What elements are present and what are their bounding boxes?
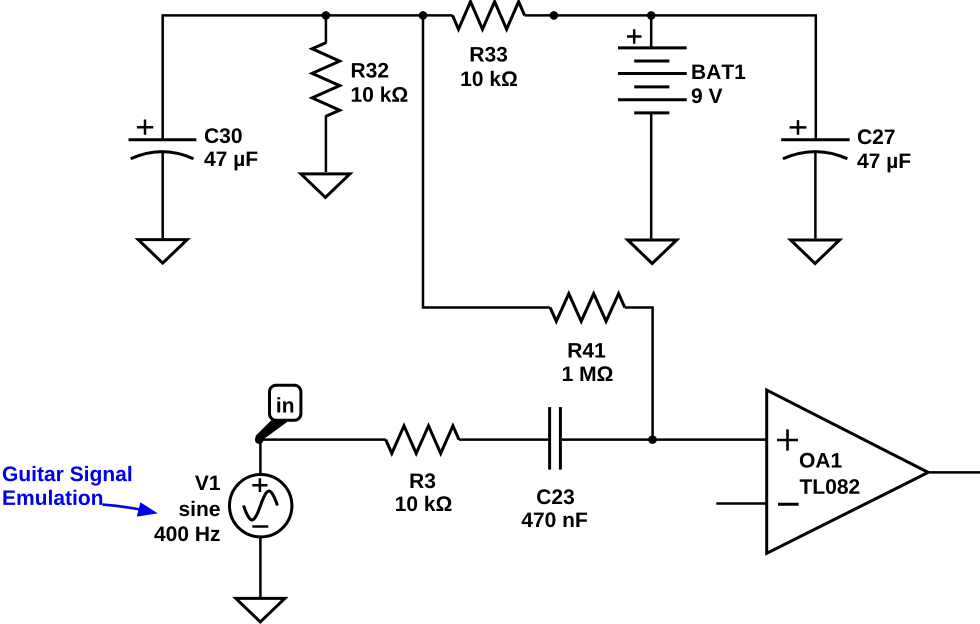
wire C27 bottom <box>814 152 817 238</box>
junction dot R32/top rail <box>322 11 331 20</box>
label C30 value 47 µF <box>204 152 257 171</box>
node in tag box <box>270 385 301 420</box>
wire R41 branch from top rail <box>423 15 550 307</box>
wire V1 top <box>259 440 262 474</box>
annotation text Guitar Signal <box>3 466 131 486</box>
capacitor C27 curved plate <box>783 152 848 159</box>
label R32 <box>352 63 388 78</box>
source V1 sine wave <box>244 491 278 520</box>
op-amp OA1 plus input symbol <box>777 429 798 450</box>
label BAT1 <box>692 65 745 79</box>
source V1 minus sign <box>252 525 268 528</box>
wire R3 to C23 <box>459 438 548 441</box>
label V1 sine <box>179 501 220 516</box>
label C30 <box>205 128 242 143</box>
label BAT1 value 9 V <box>692 88 723 103</box>
battery BAT1 plates <box>618 48 687 113</box>
op-amp OA1 triangle <box>767 390 929 553</box>
label R32 value 10 kΩ <box>352 87 408 102</box>
junction dot node in <box>255 435 264 444</box>
capacitor C30 plus sign <box>137 120 153 135</box>
annotation arrow head <box>137 502 158 516</box>
wire R32 bottom stub <box>325 116 328 173</box>
wire C30 bottom <box>161 152 164 238</box>
label R3 value 10 kΩ <box>396 496 452 511</box>
resistor R33 <box>453 2 525 30</box>
label R41 value 1 MΩ <box>563 366 613 381</box>
label R33 value 10 kΩ <box>462 71 518 86</box>
label OA1 <box>800 453 842 468</box>
ground under R32 <box>301 174 350 198</box>
source V1 plus sign <box>252 478 267 492</box>
node in tag pointer wedge <box>255 421 287 439</box>
capacitor C23 plates <box>550 407 561 470</box>
wire inverting input stub <box>716 502 766 505</box>
node in tag text <box>277 397 293 412</box>
wire C23 to op-amp <box>562 438 767 441</box>
label C27 value 47 µF <box>857 154 910 173</box>
resistor R32 <box>312 43 340 117</box>
wire R41 to summing node <box>625 308 653 440</box>
junction dot right of R33 <box>550 11 559 20</box>
label R33 <box>471 47 507 62</box>
label C27 <box>858 129 895 144</box>
label R3 <box>411 473 436 488</box>
battery BAT1 plus sign <box>627 29 642 44</box>
junction dot battery/top rail <box>647 11 656 20</box>
wire top rail right with C27 riser <box>525 15 816 139</box>
wire R32 top stub <box>325 15 328 43</box>
wire V1 bottom <box>259 538 262 598</box>
capacitor C30 curved plate <box>131 152 194 159</box>
source V1 circle <box>230 475 292 537</box>
wire main signal line V1 to R3 <box>259 438 386 441</box>
wire op-amp output <box>928 471 980 474</box>
label V1 <box>195 476 220 490</box>
junction dot R41 branch/top rail <box>419 11 428 20</box>
label C23 value 470 nF <box>522 512 587 527</box>
ground under C27 <box>791 240 840 264</box>
label OA1 type TL082 <box>800 479 860 494</box>
label C23 <box>537 489 574 504</box>
resistor R41 <box>550 294 625 322</box>
wire top rail left with C30 riser <box>163 15 453 139</box>
junction dot summing node <box>648 435 657 444</box>
ground under V1 <box>236 598 285 622</box>
wire battery bottom stub <box>650 113 653 238</box>
capacitor C30 top plate <box>129 138 197 141</box>
wire battery top stub <box>650 15 653 48</box>
resistor R3 <box>386 426 459 454</box>
capacitor C27 plus sign <box>790 120 807 135</box>
capacitor C27 top plate <box>781 138 850 141</box>
ground under C30 <box>138 240 187 264</box>
annotation arrow line <box>103 505 143 510</box>
label V1 400 Hz <box>154 526 219 541</box>
label R41 <box>569 343 606 357</box>
op-amp OA1 minus input symbol <box>778 503 799 506</box>
annotation text Emulation <box>3 490 102 505</box>
ground under BAT1 <box>628 240 677 264</box>
